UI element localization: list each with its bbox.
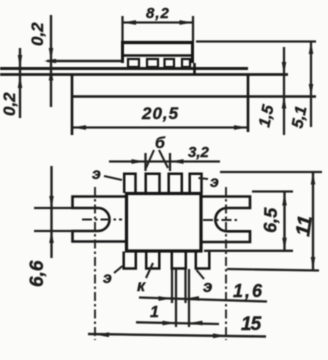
svg-text:к: к	[137, 278, 146, 295]
svg-text:1: 1	[150, 304, 159, 321]
svg-text:0,2: 0,2	[28, 22, 47, 46]
svg-text:8,2: 8,2	[146, 5, 170, 22]
svg-text:э: э	[210, 174, 219, 191]
svg-text:15: 15	[241, 314, 262, 335]
svg-text:э: э	[203, 277, 212, 296]
svg-text:б: б	[155, 135, 166, 152]
svg-text:11: 11	[292, 214, 317, 238]
svg-text:1,5: 1,5	[256, 102, 277, 128]
svg-text:3,2: 3,2	[188, 144, 210, 161]
svg-text:20,5: 20,5	[141, 104, 179, 123]
svg-text:0,2: 0,2	[0, 92, 19, 116]
svg-text:1,6: 1,6	[233, 281, 264, 301]
svg-text:6,5: 6,5	[260, 206, 281, 233]
svg-text:6,6: 6,6	[27, 260, 48, 287]
svg-text:э: э	[92, 166, 101, 183]
svg-text:5,1: 5,1	[289, 104, 310, 129]
svg-text:э: э	[103, 270, 112, 287]
